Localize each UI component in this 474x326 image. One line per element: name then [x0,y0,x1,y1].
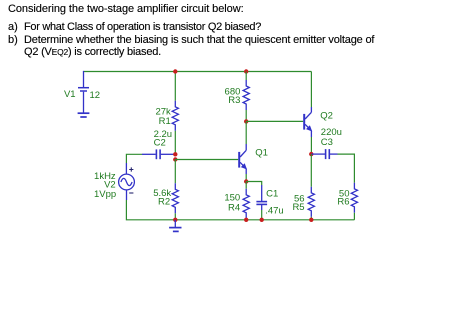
resistor R6 [351,183,357,213]
resistor R4 [243,189,249,219]
svg-text:Q2: Q2 [320,111,333,122]
wire Q1 emitter down [245,174,247,182]
svg-text:R1: R1 [159,116,171,127]
svg-text:1Vpp: 1Vpp [94,189,116,200]
ground (bottom rail) [169,220,181,232]
svg-text:R2: R2 [158,197,170,208]
wire R3 node down to Q1 collector [245,121,247,144]
resistor R5 [308,187,314,217]
svg-text:R4: R4 [228,202,240,213]
wire R3 branch [245,72,247,122]
wire C3 to R6 [338,154,355,183]
wire R5 branch [310,154,312,220]
minus mark [129,192,133,194]
node dot Q2 emitter [309,152,313,156]
transistor Q1 [239,144,246,174]
transistor Q2 [304,107,311,137]
wire R2 branch [174,160,176,220]
wire base bus to Q1 [175,159,238,161]
svg-text:R5: R5 [292,202,304,213]
node dot R3 bottom [244,119,248,123]
wire Q2 emitter down [310,137,312,154]
svg-text:12: 12 [90,90,101,101]
node dot C2-R1 [173,152,177,156]
capacitor C2 [142,149,175,159]
wire C1 bottom [261,210,263,220]
svg-text:C2: C2 [154,138,166,149]
node dot Q1 emitter [244,179,248,183]
node dot R2 bottom [173,218,177,222]
resistor R2 [172,183,178,213]
svg-text:Q1: Q1 [255,147,268,158]
svg-text:V1: V1 [64,89,76,100]
capacitor C1 [256,185,267,210]
wire R6 bottom [353,213,355,220]
battery V1 [78,71,89,113]
source V2 [119,163,135,200]
wire Q1 emitter to C1 [246,182,262,186]
resistor R1 [172,101,178,131]
node dot rail R1 [173,69,177,73]
resistor R3 [243,80,249,110]
node dot R4 bottom [244,218,248,222]
svg-text:C1: C1 [266,189,278,200]
wire V2 bottom + bottom rail [126,200,354,220]
svg-text:C3: C3 [321,137,333,148]
svg-text:R6: R6 [337,197,349,208]
wire R1 branch upper [174,72,176,155]
wire R3 node to Q2 base [246,120,303,122]
wire R4 branch [245,182,247,220]
node dot C1 bottom [260,218,264,222]
svg-text:.47u: .47u [265,205,284,216]
plus mark [129,167,133,171]
node dot base bus [173,157,177,161]
node dot R5 bottom [309,218,313,222]
capacitor C3 [311,149,337,159]
svg-text:R3: R3 [228,95,240,106]
wire V2 top to C2 [126,154,142,163]
wire top rail [84,71,312,73]
node dot rail R3 [244,69,248,73]
ground (V1) [78,113,90,117]
wire Q2 collector to rail [310,72,312,108]
